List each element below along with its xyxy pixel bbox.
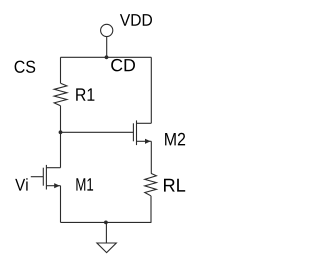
resistor RL	[145, 173, 157, 195]
wire VDD stem	[106, 37, 108, 58]
resistor R1	[54, 83, 67, 106]
transistor M2	[133, 120, 151, 145]
wire left rail upper (top rail to R1)	[60, 57, 62, 83]
ground symbol	[97, 243, 116, 253]
label Vi	[15, 178, 27, 190]
label M1	[76, 178, 93, 190]
node label CD	[111, 59, 135, 71]
transistor M1	[43, 165, 60, 190]
junction dot at ground / bottom rail	[104, 221, 108, 225]
label R1	[76, 88, 94, 100]
wire top rail	[61, 56, 152, 58]
junction dot at VDD / top rail	[105, 55, 109, 59]
label VDD	[120, 14, 152, 26]
junction dot at R1 bottom / M2 gate wire	[59, 130, 63, 134]
node label CS	[15, 61, 36, 73]
wire left rail lower (M1 source to bottom rail)	[60, 186, 62, 223]
wire right rail mid (M2 source to RL)	[150, 141, 152, 173]
label RL	[164, 179, 185, 192]
wire right rail upper (top rail to M2 drain)	[150, 57, 152, 123]
wire bottom rail	[61, 221, 152, 223]
wire M2 gate (node to M2)	[61, 131, 134, 133]
wire M1 gate lead	[31, 176, 44, 178]
wire right rail lower (RL to bottom rail)	[150, 196, 152, 223]
ground stem	[105, 222, 107, 243]
label M2	[165, 133, 185, 146]
wire left rail mid (R1 to M1 drain)	[60, 106, 62, 168]
power terminal VDD (open circle)	[101, 24, 113, 36]
